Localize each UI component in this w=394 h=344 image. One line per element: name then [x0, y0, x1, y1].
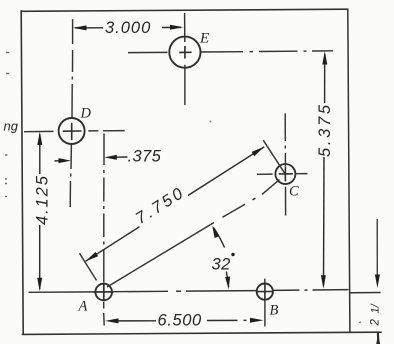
border frame bottom-right stub	[377, 333, 380, 344]
arc arrow top	[212, 226, 219, 239]
svg-text:6.500: 6.500	[158, 312, 203, 330]
hole D center cross	[63, 123, 82, 140]
degree mark	[231, 253, 234, 256]
centerline vertical through A	[103, 134, 106, 326]
cut-off up arrow at very bottom edge	[376, 335, 380, 344]
svg-text:5.375: 5.375	[316, 102, 334, 157]
baseline centerline through A and B	[29, 290, 349, 293]
centerline horizontal through D	[24, 131, 125, 132]
arrow right of 3.000	[170, 25, 184, 30]
extension line at C for 7.750	[263, 140, 284, 173]
svg-text:B: B	[270, 303, 279, 319]
hole D	[59, 118, 85, 144]
centerline horizontal through C	[257, 173, 308, 176]
hole B	[257, 284, 273, 300]
svg-text:.375: .375	[128, 148, 162, 166]
arrow bottom of 5.375	[321, 275, 326, 289]
dimension 4.125 line	[39, 134, 41, 289]
dimension .375 left arrow	[55, 160, 61, 162]
dimension 5.375 line	[324, 54, 325, 285]
hole C center cross	[279, 166, 293, 181]
svg-text:A: A	[78, 299, 88, 315]
hole E center cross	[179, 46, 191, 59]
centerline horizontal through E with dash-dot to right	[128, 51, 333, 53]
svg-text:2: 2	[370, 319, 382, 327]
border frame top	[21, 9, 348, 11]
dimension 6.500	[117, 319, 247, 322]
svg-text:C: C	[289, 184, 299, 200]
arrow bottom of 4.125	[37, 278, 42, 292]
svg-text:1/: 1/	[370, 303, 382, 313]
hole E	[169, 37, 200, 68]
svg-text:32: 32	[212, 256, 231, 274]
svg-text:ng: ng	[4, 119, 19, 134]
svg-text:E: E	[199, 31, 209, 47]
border frame bottom	[22, 332, 381, 334]
extension line at A for 7.750	[80, 253, 97, 280]
dimension line 7.750	[86, 147, 265, 261]
line A to C (solid then dash-dot)	[107, 180, 280, 287]
svg-text:3.000: 3.000	[105, 19, 151, 37]
arrow top of 4.125	[37, 132, 42, 146]
centerline vertical through D and 3.000 extension	[70, 19, 72, 207]
scan speck	[210, 121, 212, 123]
border frame left	[21, 11, 23, 334]
32 degree arc	[214, 228, 229, 288]
svg-text:4.125: 4.125	[34, 174, 52, 225]
small mark left of cut text	[359, 321, 361, 324]
arrow left of 6.500	[105, 318, 119, 323]
hole B center cross	[257, 283, 273, 300]
arc arrow bottom	[225, 277, 230, 290]
border frame right	[348, 9, 350, 332]
hole A	[95, 284, 112, 301]
dimension .375 right arrow with tail	[114, 156, 128, 158]
svg-text:D: D	[80, 106, 92, 122]
centerline vertical through C	[284, 113, 286, 215]
arrow right of 6.500	[250, 318, 264, 323]
centerline vertical through B	[264, 279, 266, 327]
centerline vertical through E	[184, 13, 186, 105]
arrow left of 3.000	[73, 25, 87, 30]
cut-off dimension arrow right of border	[376, 219, 378, 278]
arrow lower end 7.750	[86, 252, 99, 261]
baseline extension right of border	[350, 292, 380, 294]
arrow upper end 7.750	[252, 147, 265, 156]
edge artifact marks	[5, 53, 9, 197]
arrow top of 5.375	[322, 51, 327, 65]
hole A center cross	[94, 282, 115, 301]
hole C	[275, 164, 295, 184]
dimension 3.000	[75, 26, 181, 29]
